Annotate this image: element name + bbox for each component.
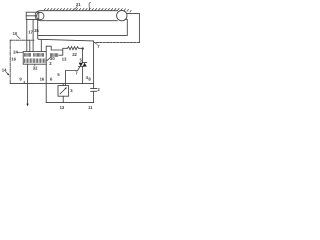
wire: heater return down: [45, 46, 47, 102]
svg-text:2: 2: [49, 61, 52, 66]
main bus vertical: [93, 41, 95, 103]
wire: right edge down-left to bus: [94, 42, 139, 44]
svg-text:17: 17: [28, 29, 33, 34]
wire: rect bottom down to heater box: [32, 20, 34, 52]
wire A: roller-to-roller lower bus: [38, 20, 128, 36]
dash-dot enclosure left edge: [9, 40, 11, 83]
stub: boundary to heater: [29, 40, 31, 51]
junction tick: [23, 81, 25, 83]
electrode block right: [34, 53, 44, 56]
labels: [2, 2, 101, 110]
svg-text:9: 9: [19, 76, 22, 81]
wire: rect left down to heater box: [26, 20, 28, 52]
guide block midline: [26, 15, 37, 17]
heater comb element: [25, 59, 45, 63]
bottom wire: [46, 102, 93, 104]
wire: junction down to triac: [82, 48, 84, 62]
svg-text:5: 5: [80, 58, 83, 63]
resistor 22: [68, 47, 83, 50]
svg-text:7: 7: [75, 71, 78, 76]
wire: triac down to mid bus: [82, 67, 84, 84]
svg-text:7: 7: [97, 44, 100, 49]
leader for 14 arrow: [6, 72, 9, 75]
svg-text:30: 30: [50, 56, 55, 61]
roller (left): [37, 12, 44, 19]
box stubs: [62, 84, 64, 103]
triac gate lead: [66, 67, 80, 86]
svg-text:8: 8: [88, 77, 91, 82]
wire: left roller down: [38, 21, 39, 40]
leader for 21: [75, 6, 78, 9]
electrode block left: [25, 53, 31, 56]
triac Q: [79, 63, 87, 67]
svg-text:13: 13: [60, 105, 65, 110]
wire: electrode lead down with arrow: [27, 64, 29, 104]
svg-text:3: 3: [70, 88, 73, 93]
svg-text:16: 16: [11, 57, 16, 62]
svg-text:2: 2: [97, 87, 100, 92]
wire: block 13 to resistor 22: [46, 46, 67, 55]
svg-text:14: 14: [2, 67, 7, 72]
leader for 24: [17, 51, 23, 53]
arrowhead: [26, 104, 28, 107]
svg-text:13: 13: [62, 56, 67, 61]
box arrow: [60, 88, 66, 94]
svg-text:22: 22: [72, 52, 77, 57]
leader for 7: [95, 43, 97, 44]
guide block 24 (left rectangle): [26, 12, 39, 19]
svg-text:16: 16: [40, 76, 45, 81]
svg-text:11: 11: [88, 105, 93, 110]
leader hook above belt: [89, 2, 91, 9]
resistor block 13: [50, 54, 58, 57]
belt top hatching: [44, 8, 131, 12]
capacitor 2 plates: [91, 89, 97, 92]
svg-text:32: 32: [33, 65, 38, 70]
belt 20 (stadium outline): [35, 11, 117, 21]
control box 3: [58, 86, 69, 97]
leader for 10: [17, 35, 21, 38]
svg-text:25: 25: [34, 28, 39, 33]
svg-text:10: 10: [13, 31, 18, 36]
wire: right roller top to right edge: [127, 13, 139, 42]
svg-text:24: 24: [13, 50, 18, 55]
svg-text:21: 21: [76, 2, 81, 7]
svg-text:5: 5: [57, 72, 60, 77]
wire B: left roller node to right bus: [39, 39, 94, 41]
heater housing rect: [23, 52, 46, 65]
mid wire: [10, 83, 93, 85]
junction node: [82, 47, 84, 49]
leader for 32: [34, 64, 36, 65]
svg-text:6: 6: [50, 77, 53, 82]
stub: wire B to heater: [40, 40, 42, 52]
dash-dot enclosure (fixing unit) top edge: [10, 39, 34, 41]
switch contact: [47, 58, 50, 61]
roller (right): [117, 10, 127, 20]
